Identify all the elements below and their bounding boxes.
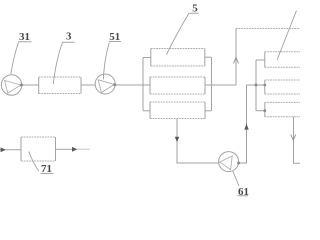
svg-text:71: 71 xyxy=(41,163,52,175)
svg-text:3: 3 xyxy=(66,31,72,43)
svg-text:61: 61 xyxy=(238,186,249,198)
svg-text:5: 5 xyxy=(192,3,198,15)
svg-text:51: 51 xyxy=(109,31,120,43)
svg-text:31: 31 xyxy=(19,31,30,43)
